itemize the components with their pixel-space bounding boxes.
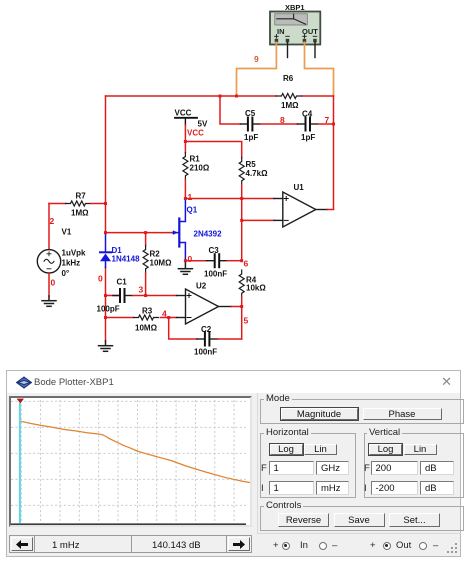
svg-text:1kHz: 1kHz: [62, 259, 81, 268]
svg-text:1MΩ: 1MΩ: [71, 209, 89, 218]
svg-text:5V: 5V: [198, 120, 208, 129]
resistor R7: [49, 203, 66, 205]
svg-text:1MΩ: 1MΩ: [281, 101, 299, 110]
svg-text:V1: V1: [62, 228, 72, 237]
junction dots: [104, 95, 335, 320]
wire R3 to node 4 / U2-: [161, 317, 177, 319]
wire XBP1 OUT- stub: [314, 42, 316, 57]
svg-text:1: 1: [188, 192, 193, 202]
svg-text:100pF: 100pF: [97, 305, 120, 314]
Mode group: [260, 399, 464, 424]
svg-text:4: 4: [162, 309, 167, 319]
ground (V1): [42, 296, 56, 306]
resistor R2: [145, 233, 147, 246]
svg-text:9: 9: [254, 54, 259, 64]
svg-text:R3: R3: [142, 307, 153, 316]
svg-text:5: 5: [244, 316, 249, 326]
wire right vertical (feedback): [333, 96, 335, 209]
resize grip: [446, 542, 458, 554]
Controls group: [260, 506, 464, 531]
wire node 3 to U2+: [133, 295, 177, 297]
wire C3 to node 6: [228, 260, 242, 262]
wire left main vertical: [105, 96, 107, 341]
svg-text:10kΩ: 10kΩ: [246, 284, 266, 293]
wire R6 top line: [106, 95, 334, 97]
source V1: [37, 204, 86, 279]
wire U1- from R5 column: [242, 219, 274, 221]
readout bar: [9, 535, 252, 553]
svg-text:1pF: 1pF: [301, 133, 315, 142]
svg-text:R2: R2: [150, 250, 161, 259]
wire node 4 to C2 loop: [169, 318, 197, 340]
transistor Q1 2N4392 (JFET, highlighted blue): [172, 199, 186, 260]
Vertical group: [364, 433, 464, 498]
wire Q1 source / node 0 to C3: [185, 260, 206, 262]
op-amp U2: [177, 282, 232, 325]
wire C5 branch vertical: [220, 96, 241, 124]
wire XBP1 IN- stub: [287, 42, 289, 57]
wire node 1 to U1+: [185, 198, 274, 200]
svg-text:R7: R7: [76, 192, 87, 201]
svg-text:0: 0: [98, 274, 103, 284]
wire gate net: [106, 232, 172, 234]
svg-text:VCC: VCC: [175, 109, 192, 118]
diode D1 1N4148 (highlighted blue): [100, 234, 140, 268]
resistor R5: [239, 158, 244, 185]
svg-text:2: 2: [50, 216, 55, 226]
ground (left vertical bottom): [99, 341, 113, 351]
svg-text:0: 0: [51, 278, 56, 288]
capacitor C5: [241, 109, 261, 142]
svg-text:1uVpk: 1uVpk: [62, 249, 87, 258]
wire R3 line: [106, 317, 134, 319]
wire node 7 segment: [318, 123, 334, 125]
wire R1 to node 1: [184, 180, 186, 199]
svg-text:C5: C5: [245, 109, 256, 118]
resistor R6: [276, 94, 302, 99]
bode plotter instrument XBP1: [270, 3, 320, 45]
svg-text:1pF: 1pF: [244, 133, 258, 142]
svg-text:210Ω: 210Ω: [190, 164, 210, 173]
wire XBP1 OUT+ to output net (orange): [305, 42, 334, 95]
wire XBP1 IN+ to node 9 (orange): [237, 42, 277, 95]
resistor R4: [239, 270, 244, 297]
svg-text:0: 0: [188, 254, 193, 264]
svg-text:C4: C4: [302, 110, 313, 119]
svg-text:C2: C2: [201, 325, 212, 334]
svg-text:8: 8: [280, 115, 285, 125]
svg-text:R5: R5: [246, 160, 257, 169]
wire U2 output to node 5: [232, 306, 242, 308]
svg-text:C3: C3: [209, 246, 220, 255]
capacitor C1: [97, 278, 133, 314]
resistor R1: [183, 153, 188, 180]
svg-text:10MΩ: 10MΩ: [135, 324, 158, 333]
svg-text:IN: IN: [277, 27, 285, 36]
svg-text:VCC: VCC: [187, 129, 204, 138]
svg-text:1N4148: 1N4148: [112, 255, 141, 264]
wire U1 output to feedback vertical: [328, 209, 334, 211]
capacitor C4: [298, 110, 319, 143]
svg-text:Q1: Q1: [187, 206, 198, 215]
wire VCC to R1/R5: [184, 125, 186, 153]
bode plotter window: [6, 370, 461, 557]
svg-text:R6: R6: [283, 74, 294, 83]
svg-text:R1: R1: [190, 155, 201, 164]
svg-text:100nF: 100nF: [194, 348, 217, 357]
resistor R3: [134, 315, 159, 320]
svg-text:2N4392: 2N4392: [194, 230, 223, 239]
wire C2 right to node 5 column: [218, 338, 242, 340]
ground (Q1 source): [178, 261, 192, 275]
svg-text:C1: C1: [117, 278, 128, 287]
svg-text:3: 3: [139, 285, 144, 295]
capacitor C2: [194, 325, 218, 357]
op-amp U1: [274, 183, 328, 227]
svg-text:U1: U1: [294, 183, 305, 192]
Horizontal group: [260, 433, 356, 498]
svg-text:100nF: 100nF: [204, 270, 227, 279]
svg-text:U2: U2: [196, 282, 207, 291]
svg-text:6: 6: [244, 259, 249, 269]
radio row: [273, 540, 279, 551]
wire node 8 segment: [260, 123, 298, 125]
svg-text:0°: 0°: [62, 269, 70, 278]
svg-text:10MΩ: 10MΩ: [150, 259, 173, 268]
svg-text:7: 7: [325, 115, 330, 125]
wire R5 down to node 6: [241, 185, 243, 261]
capacitor C3: [204, 246, 228, 279]
svg-text:XBP1: XBP1: [285, 3, 305, 12]
wire V1 to ground: [48, 273, 50, 296]
power VCC symbol: [175, 109, 208, 138]
svg-text:4.7kΩ: 4.7kΩ: [246, 169, 269, 178]
